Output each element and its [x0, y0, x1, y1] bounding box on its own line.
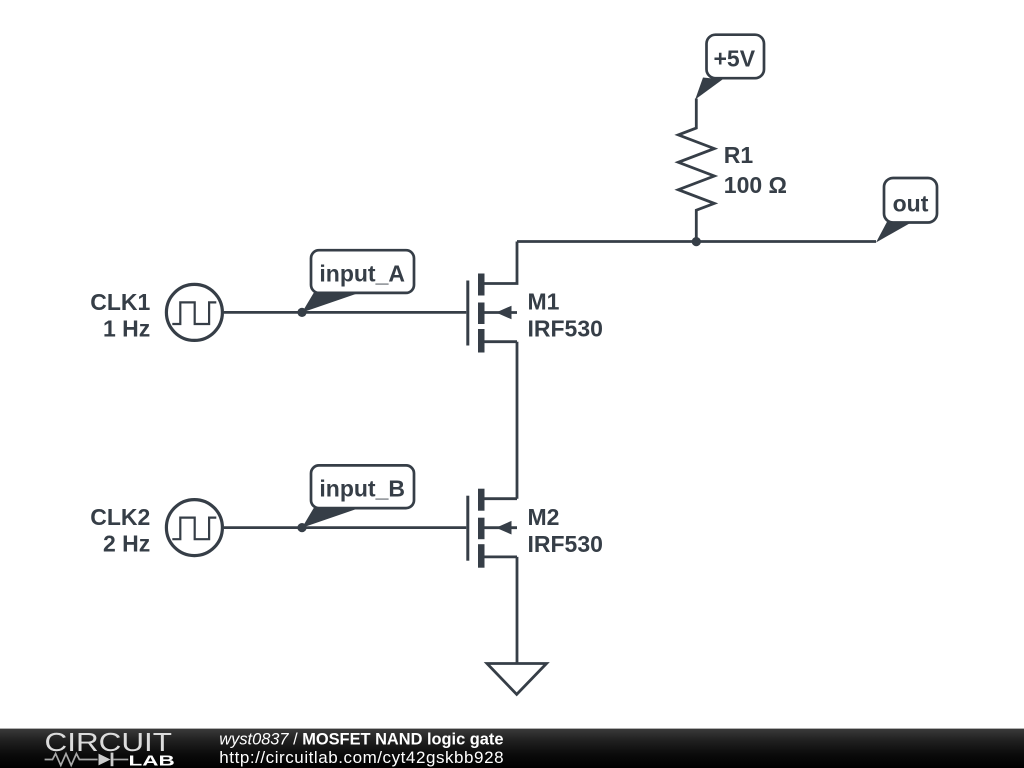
transistor M1 channel segment bottom [478, 329, 485, 353]
node junction: input_A on gate wire [297, 308, 306, 317]
resistor R1 [678, 99, 714, 242]
svg-text:out: out [893, 191, 929, 217]
net flag out balloon [884, 178, 937, 223]
transistor M1 source stub [485, 340, 518, 343]
transistor M1 channel segment middle [478, 303, 485, 325]
svg-text:IRF530: IRF530 [528, 316, 603, 342]
svg-text:CLK1: CLK1 [90, 289, 150, 315]
svg-text:input_B: input_B [319, 476, 405, 502]
svg-text:IRF530: IRF530 [528, 531, 603, 557]
svg-text:100 Ω: 100 Ω [724, 172, 787, 198]
wire: output net horizontal [517, 240, 876, 243]
svg-text:M2: M2 [528, 504, 560, 530]
svg-text:wyst0837 / MOSFET NAND logic g: wyst0837 / MOSFET NAND logic gate [219, 730, 503, 748]
net flag input_A balloon [311, 250, 414, 293]
voltage source CLK2 circle [166, 500, 222, 556]
node junction: input_B on gate wire [297, 523, 306, 532]
voltage source CLK2 square-wave glyph [172, 518, 216, 540]
transistor M2 body line [485, 526, 518, 529]
svg-text:input_A: input_A [319, 260, 405, 286]
transistor M1 body arrow [496, 306, 512, 320]
net flag input_A tail [302, 292, 357, 313]
voltage source CLK1 circle [166, 284, 222, 340]
net flag input_B balloon [311, 465, 414, 508]
CircuitLab logo diode cathode bar [111, 753, 114, 767]
wire: M2 source to ground [516, 557, 519, 664]
transistor M2 channel segment top [478, 489, 485, 511]
voltage source CLK1 square-wave glyph [172, 302, 216, 324]
svg-text:+5V: +5V [714, 46, 756, 72]
net flag +5V balloon [707, 35, 765, 78]
transistor M1 body line [485, 311, 518, 314]
transistor M2 gate bar [466, 496, 469, 561]
ground symbol [487, 664, 547, 695]
transistor M2 source stub [485, 556, 518, 559]
transistor M2 channel segment middle [478, 518, 485, 540]
svg-text:2 Hz: 2 Hz [103, 531, 150, 557]
svg-text:LAB: LAB [129, 753, 175, 768]
transistor M1 gate bar [466, 281, 469, 346]
CircuitLab logo diode triangle [99, 754, 111, 766]
CircuitLab logo resistor-diode squiggle [45, 754, 98, 766]
transistor M1 channel segment top [478, 274, 485, 296]
svg-text:1 Hz: 1 Hz [103, 316, 150, 342]
node junction: R1 / M1 drain / out [692, 237, 701, 246]
net flag +5V tail [695, 78, 722, 100]
footer bar [0, 729, 1024, 768]
net flag out tail [876, 221, 911, 243]
transistor M1 drain stub [485, 242, 518, 284]
wire: M1 source to M2 drain [516, 342, 519, 499]
wire: CLK2 to M2 gate [224, 526, 466, 529]
svg-text:CLK2: CLK2 [90, 504, 150, 530]
svg-text:R1: R1 [724, 142, 754, 168]
net flag input_B tail [302, 507, 357, 528]
svg-text:M1: M1 [528, 289, 560, 315]
transistor M2 drain stub [485, 497, 518, 500]
wire: CLK1 to M1 gate [224, 311, 466, 314]
svg-text:http://circuitlab.com/cyt42gsk: http://circuitlab.com/cyt42gskbb928 [219, 748, 504, 767]
CircuitLab logo diode wire out [113, 759, 128, 761]
transistor M2 channel segment bottom [478, 544, 485, 568]
transistor M2 body arrow [496, 521, 512, 535]
